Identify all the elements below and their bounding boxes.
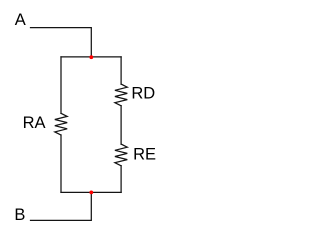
svg-text:A: A	[15, 11, 26, 29]
wire left branch upper	[60, 57, 62, 113]
resistor RE	[115, 144, 127, 166]
wire bottom rail	[61, 191, 121, 193]
resistor RA	[55, 113, 67, 135]
node A lead wire	[31, 28, 92, 57]
node B lead wire	[31, 192, 92, 220]
svg-text:RD: RD	[131, 85, 155, 103]
wire top rail	[61, 56, 121, 58]
junction node top	[89, 55, 93, 59]
wire left branch lower	[60, 135, 62, 192]
wire right branch upper	[120, 57, 122, 84]
junction node bottom	[89, 191, 93, 195]
wire right branch middle	[120, 106, 122, 144]
svg-text:RE: RE	[133, 145, 156, 163]
svg-text:B: B	[14, 206, 25, 224]
wire right branch lower	[120, 166, 122, 193]
resistor RD	[115, 84, 127, 106]
svg-text:RA: RA	[23, 114, 46, 132]
